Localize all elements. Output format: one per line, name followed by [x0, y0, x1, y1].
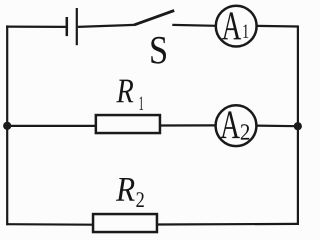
wire: right vertical — [297, 26, 299, 226]
resistor R2 — [93, 214, 157, 232]
resistor R1 — [96, 115, 160, 133]
battery cell: long positive plate — [76, 8, 78, 45]
wire: top-left corner to battery — [6, 26, 66, 28]
wire: R1 to ammeter A2 — [161, 124, 217, 126]
wire: bottom-left to resistor R2 — [6, 223, 93, 226]
wire: A1 to top-right corner — [257, 25, 299, 28]
node: left junction dot — [3, 122, 11, 130]
node: right junction dot — [294, 122, 302, 130]
wire: left vertical — [6, 25, 8, 225]
wire: R2 to bottom-right corner — [158, 223, 299, 226]
wire: battery to switch hinge — [78, 25, 134, 27]
switch S: open blade — [134, 11, 174, 25]
label S — [151, 37, 166, 64]
ammeter A2 — [216, 105, 257, 146]
wire: A2 to right node — [257, 124, 298, 127]
ammeter A1 — [216, 6, 257, 47]
battery cell: short negative plate — [66, 17, 69, 36]
label R1 — [116, 80, 143, 110]
label R2 — [116, 178, 144, 207]
wire: left node to resistor R1 — [7, 125, 96, 127]
wire: switch fixed contact to ammeter A1 — [172, 24, 216, 27]
